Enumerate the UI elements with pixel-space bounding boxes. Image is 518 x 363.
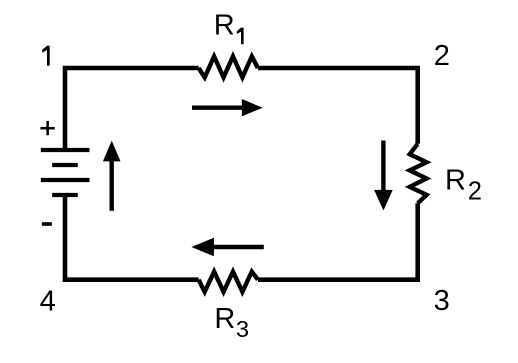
svg-text:4: 4 bbox=[40, 285, 56, 317]
wire bottom-right (R2 to node 3 corner to R3) bbox=[258, 203, 418, 279]
label R2 bbox=[445, 164, 482, 205]
resistor R3 bbox=[199, 272, 258, 292]
svg-text:3: 3 bbox=[434, 285, 450, 317]
label R3 bbox=[214, 303, 249, 342]
battery B1 positive long plate bbox=[41, 148, 90, 152]
svg-text:R: R bbox=[214, 10, 235, 42]
svg-text:2: 2 bbox=[468, 177, 482, 205]
resistor R2 bbox=[410, 144, 427, 204]
svg-text:3: 3 bbox=[236, 316, 249, 342]
svg-text:R: R bbox=[214, 303, 235, 335]
resistor R1 bbox=[199, 56, 258, 77]
wire bottom-left (R3 to node 4 corner to battery negative) bbox=[65, 195, 199, 280]
battery positive terminal label + bbox=[41, 121, 55, 135]
current arrow right (above top wire, under R1) bbox=[192, 99, 263, 116]
battery negative terminal label - bbox=[42, 222, 52, 226]
wire top-right (R1 to node 2 corner to R2) bbox=[258, 68, 418, 144]
battery B1 short plate 2 bbox=[52, 163, 78, 167]
current arrow left (above R3) bbox=[191, 238, 263, 257]
battery B1 long plate 3 bbox=[41, 178, 90, 182]
battery B1 negative short plate 4 bbox=[52, 193, 78, 197]
svg-text:2: 2 bbox=[434, 40, 450, 72]
label R1 bbox=[214, 10, 244, 45]
current arrow down (left of R2) bbox=[374, 141, 393, 211]
current arrow up (right of battery) bbox=[103, 141, 121, 211]
node 1 label bbox=[42, 46, 50, 66]
wire top-left (battery positive to node 1 corner to R1) bbox=[65, 68, 199, 150]
svg-text:R: R bbox=[445, 164, 466, 196]
